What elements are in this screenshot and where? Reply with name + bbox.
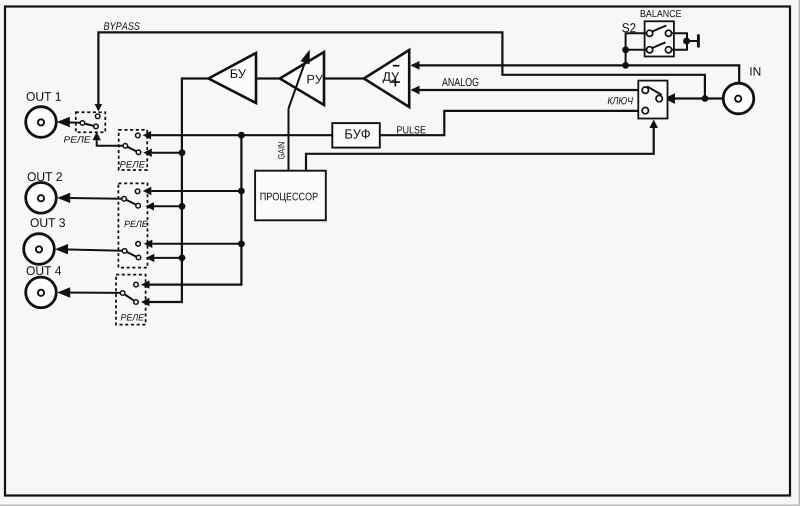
- switch S2 BALANCE: [645, 21, 674, 56]
- connector OUT3: [24, 234, 55, 265]
- relay K1 (OUT1 relay): [76, 112, 106, 132]
- wire PULSE (БУФ to КЛЮЧ): [380, 111, 642, 135]
- wire relay K2 common up to K1 with arrow: [93, 132, 124, 146]
- junction dot pulse bus / K3 upper branch: [238, 188, 245, 195]
- box БУФ: [332, 123, 380, 148]
- label OUT 4: [27, 266, 62, 275]
- junction dot analog bus / K2 branch: [179, 149, 186, 156]
- junction dot S2 right / terminal: [683, 38, 690, 45]
- junction dot bypass / IN line: [702, 95, 709, 102]
- box ПРОЦЕССОР: [255, 171, 326, 221]
- junction dot S2 left contacts: [622, 46, 629, 53]
- arrow into relay K4 lower contact: [141, 298, 150, 306]
- label OUT 3: [31, 218, 65, 227]
- wire K4 common to OUT4 with arrow: [57, 287, 120, 297]
- label GAIN: [278, 142, 285, 159]
- op-amp ДУ (differential): [364, 50, 409, 107]
- wire IN to КЛЮЧ with arrow: [664, 93, 723, 104]
- arrow into K2 upper contact (pulse): [143, 131, 152, 139]
- relay K2: [119, 130, 148, 170]
- wire ANALOG (КЛЮЧ to ДУ non-inverting input): [411, 86, 642, 95]
- label ANALOG: [442, 78, 478, 86]
- label IN: [750, 67, 760, 75]
- junction dot S2 / balance line: [622, 62, 629, 69]
- label КЛЮЧ: [608, 97, 633, 104]
- label OUT 1: [27, 92, 61, 101]
- junction dot analog bus / K3 upper branch: [179, 203, 186, 210]
- wire ДУ output to РУ input: [324, 77, 364, 79]
- wire S2 right contacts to trim terminal: [671, 33, 699, 50]
- wire S2 left contacts to balance line: [626, 33, 648, 65]
- wire БУ output to analog bus: [150, 79, 209, 303]
- РУ gain-control diagonal arrow: [289, 50, 310, 109]
- label S2: [622, 23, 635, 32]
- wire analog branch to K2 with arrow: [143, 149, 182, 157]
- connector OUT2: [26, 183, 57, 214]
- switch box КЛЮЧ: [638, 81, 667, 119]
- connector IN: [723, 83, 754, 114]
- label BYPASS: [104, 22, 140, 30]
- wire pulse bus (БУФ input line and vertical): [151, 134, 332, 136]
- junction dot pulse line / bus2: [238, 132, 245, 139]
- wire K1 to OUT1 with arrow: [57, 117, 80, 127]
- wire K3 lower common to OUT3 with arrow: [55, 244, 122, 254]
- arrow into КЛЮЧ bottom: [649, 120, 658, 129]
- wire BYPASS: [95, 32, 705, 111]
- relay K4 (OUT4 relay): [116, 275, 146, 325]
- arrow into relay K4 upper contact: [141, 280, 150, 288]
- wire K3 upper common to OUT2 with arrow: [57, 193, 122, 203]
- wire analog branch to K3 upper blade with arrow: [146, 202, 183, 210]
- wire pulse branch to K3 lower with arrow: [144, 240, 242, 248]
- connector OUT1: [26, 107, 57, 138]
- wire РУ output to БУ input: [256, 77, 280, 79]
- wire pulse branch to K3 upper with arrow: [143, 187, 242, 195]
- op-amp РУ (variable): [280, 52, 324, 105]
- label OUT 2: [28, 172, 62, 181]
- junction dot analog bus / K3 lower branch: [179, 255, 186, 262]
- wire processor control to КЛЮЧ: [306, 127, 654, 171]
- connector OUT4: [26, 277, 57, 308]
- relay K3 (OUT2/OUT3 relay): [118, 183, 147, 267]
- wire analog branch to K3 lower blade with arrow: [146, 254, 182, 262]
- op-amp БУ: [209, 53, 257, 103]
- wire IN top to ДУ inverting input (balance line): [411, 61, 740, 83]
- label BALANCE: [641, 10, 681, 17]
- label PULSE: [397, 126, 425, 133]
- wire GAIN (processor to РУ): [288, 109, 290, 171]
- junction dot pulse bus / K3 lower branch: [238, 240, 245, 247]
- label РЕЛЕ (K1): [64, 136, 91, 142]
